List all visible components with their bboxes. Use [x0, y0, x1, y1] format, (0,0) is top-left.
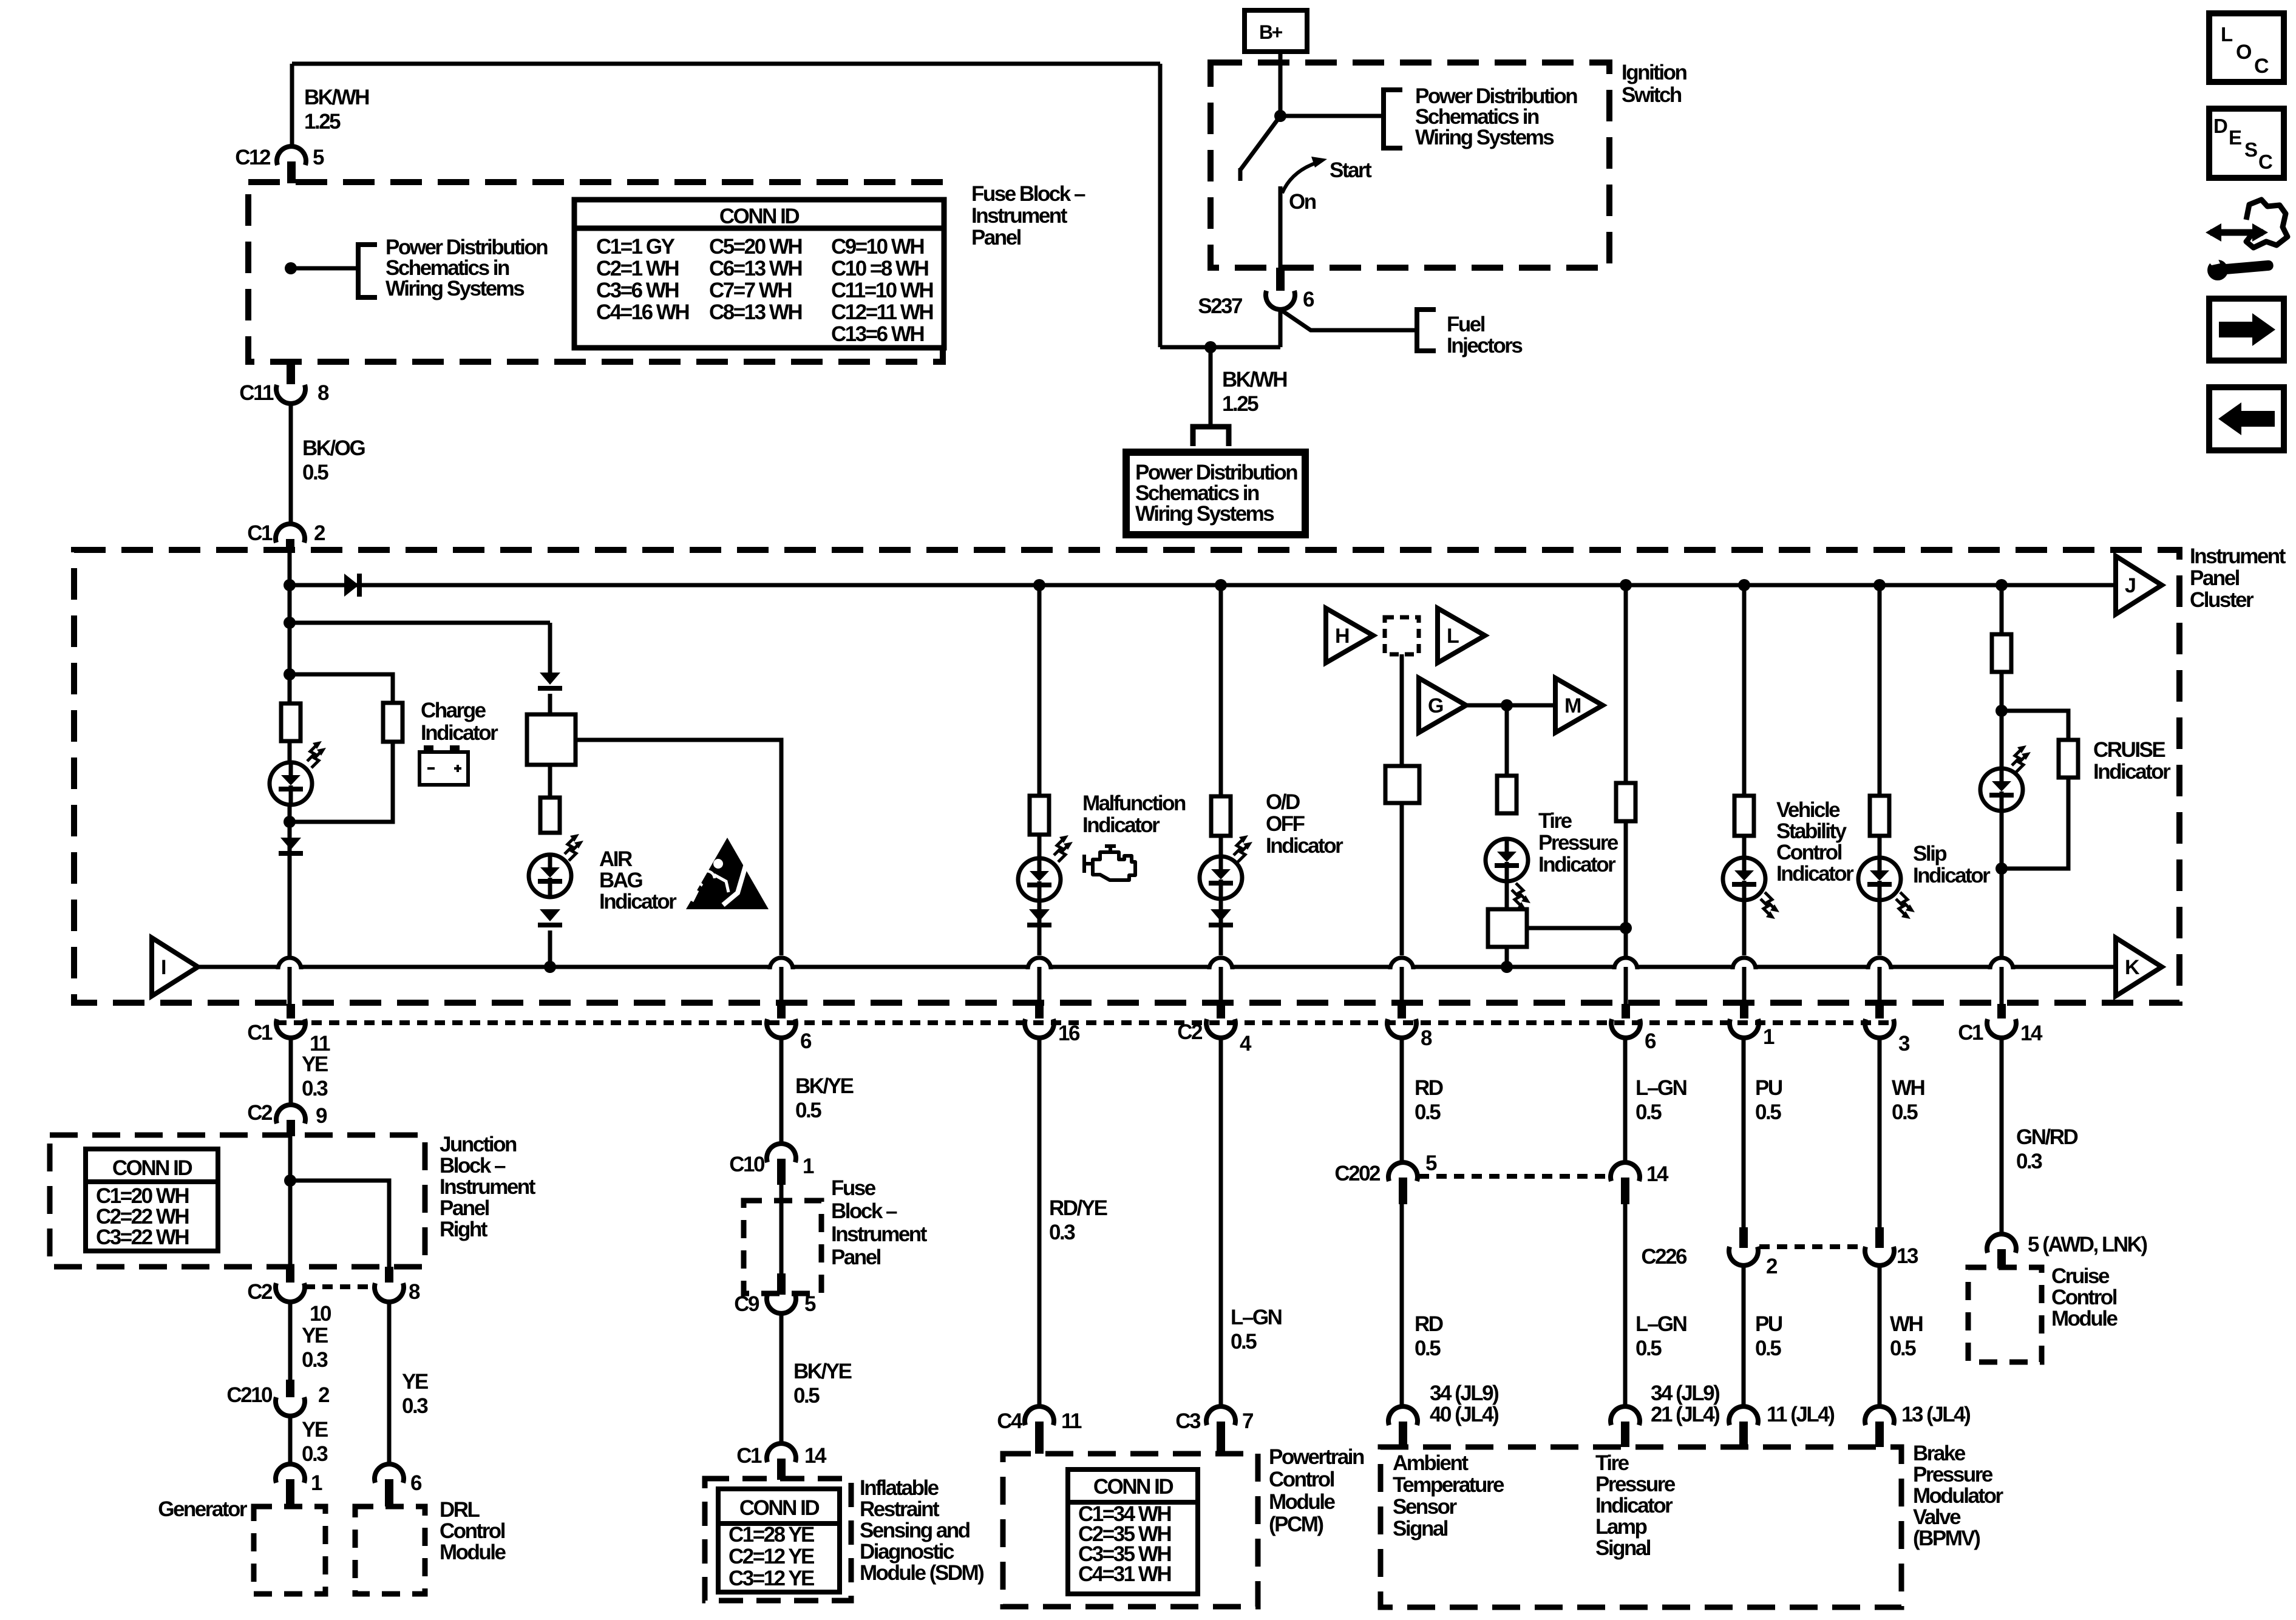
svg-text:11: 11 — [1061, 1409, 1082, 1433]
svg-text:OFF: OFF — [1266, 812, 1305, 836]
svg-text:(PCM): (PCM) — [1269, 1513, 1323, 1536]
svg-text:0.5: 0.5 — [793, 1384, 820, 1408]
svg-text:Indicator: Indicator — [2093, 760, 2171, 784]
svg-text:6: 6 — [1303, 288, 1314, 311]
svg-text:Stability: Stability — [1776, 819, 1847, 843]
svg-text:Fuse: Fuse — [831, 1176, 876, 1200]
svg-text:Sensing and: Sensing and — [860, 1519, 970, 1542]
svg-text:On: On — [1289, 190, 1316, 214]
svg-text:RD: RD — [1415, 1076, 1443, 1100]
svg-text:Indicator: Indicator — [1913, 864, 1991, 887]
svg-text:L–GN: L–GN — [1231, 1306, 1282, 1329]
svg-text:0.5: 0.5 — [795, 1099, 821, 1122]
svg-text:Instrument: Instrument — [971, 204, 1068, 228]
svg-text:5: 5 — [1425, 1151, 1437, 1175]
svg-text:Inflatable: Inflatable — [860, 1476, 939, 1500]
svg-text:GN/RD: GN/RD — [2016, 1125, 2078, 1149]
svg-text:0.3: 0.3 — [1049, 1221, 1075, 1244]
svg-text:K: K — [2125, 956, 2140, 979]
svg-text:Panel: Panel — [971, 226, 1021, 249]
svg-text:Powertrain: Powertrain — [1269, 1445, 1364, 1469]
svg-text:C7=7 WH: C7=7 WH — [709, 279, 791, 302]
svg-text:Sensor: Sensor — [1393, 1495, 1458, 1519]
svg-text:Signal: Signal — [1595, 1536, 1651, 1560]
svg-text:C4: C4 — [997, 1409, 1023, 1433]
svg-text:1: 1 — [1763, 1025, 1775, 1049]
svg-text:Pressure: Pressure — [1538, 831, 1618, 855]
svg-text:Instrument: Instrument — [440, 1175, 536, 1199]
svg-text:CONN ID: CONN ID — [739, 1496, 820, 1520]
svg-text:C4=16 WH: C4=16 WH — [596, 300, 688, 324]
svg-text:Indicator: Indicator — [1538, 853, 1616, 876]
svg-text:CONN ID: CONN ID — [1093, 1475, 1173, 1499]
svg-text:Ignition: Ignition — [1622, 61, 1686, 84]
svg-text:5: 5 — [804, 1292, 816, 1316]
svg-text:C1: C1 — [736, 1444, 762, 1468]
svg-text:PU: PU — [1755, 1076, 1782, 1100]
svg-text:Cluster: Cluster — [2190, 588, 2254, 612]
svg-text:0.3: 0.3 — [402, 1394, 428, 1418]
svg-text:Charge: Charge — [421, 699, 486, 722]
svg-text:Indicator: Indicator — [421, 721, 498, 745]
svg-text:Control: Control — [1269, 1468, 1334, 1491]
svg-text:Block –: Block – — [831, 1199, 897, 1223]
svg-text:Instrument: Instrument — [2190, 544, 2286, 568]
svg-text:Ambient: Ambient — [1393, 1451, 1469, 1475]
svg-text:C10: C10 — [729, 1153, 765, 1176]
svg-text:0.5: 0.5 — [1415, 1100, 1441, 1124]
svg-text:Control: Control — [440, 1519, 505, 1543]
svg-text:0.3: 0.3 — [302, 1348, 328, 1372]
svg-text:O/D: O/D — [1266, 790, 1300, 814]
svg-text:CONN ID: CONN ID — [719, 205, 800, 228]
svg-text:BK/YE: BK/YE — [793, 1360, 852, 1383]
svg-text:C9=10 WH: C9=10 WH — [831, 235, 923, 259]
svg-text:Tire: Tire — [1595, 1451, 1629, 1475]
svg-text:Pressure: Pressure — [1595, 1473, 1676, 1496]
svg-text:C6=13 WH: C6=13 WH — [709, 257, 801, 280]
svg-text:C2=1 WH: C2=1 WH — [596, 257, 678, 280]
svg-text:8: 8 — [1421, 1026, 1432, 1050]
svg-text:1.25: 1.25 — [304, 110, 341, 134]
svg-text:YE: YE — [302, 1324, 328, 1347]
svg-text:Module: Module — [2051, 1307, 2118, 1330]
svg-text:Junction: Junction — [440, 1133, 517, 1156]
svg-text:16: 16 — [1058, 1022, 1080, 1045]
svg-text:C12: C12 — [235, 146, 271, 169]
svg-text:0.5: 0.5 — [1892, 1100, 1918, 1124]
svg-text:Indicator: Indicator — [599, 890, 677, 913]
svg-text:5 (AWD, LNK): 5 (AWD, LNK) — [2028, 1233, 2147, 1256]
svg-text:Panel: Panel — [831, 1246, 881, 1269]
svg-text:13 (JL4): 13 (JL4) — [1901, 1403, 1970, 1426]
svg-text:2: 2 — [1766, 1255, 1778, 1278]
svg-text:2: 2 — [314, 521, 325, 545]
svg-text:M: M — [1564, 694, 1581, 717]
svg-text:0.5: 0.5 — [1890, 1337, 1916, 1360]
svg-text:C2: C2 — [247, 1101, 273, 1125]
svg-text:13: 13 — [1897, 1244, 1918, 1268]
svg-text:BK/WH: BK/WH — [304, 86, 369, 109]
svg-text:Wiring Systems: Wiring Systems — [385, 277, 525, 300]
svg-text:9: 9 — [316, 1104, 327, 1128]
svg-text:11 (JL4): 11 (JL4) — [1767, 1403, 1834, 1426]
svg-text:L–GN: L–GN — [1635, 1312, 1686, 1336]
svg-text:C: C — [2254, 55, 2269, 78]
svg-text:0.5: 0.5 — [1415, 1337, 1441, 1360]
svg-text:C1: C1 — [1958, 1021, 1983, 1045]
svg-text:C9: C9 — [734, 1292, 759, 1316]
svg-text:C8=13 WH: C8=13 WH — [709, 300, 801, 324]
svg-text:Cruise: Cruise — [2051, 1264, 2110, 1288]
svg-text:Signal: Signal — [1393, 1517, 1448, 1540]
svg-text:1.25: 1.25 — [1222, 392, 1258, 416]
svg-text:WH: WH — [1892, 1076, 1924, 1100]
svg-text:C1: C1 — [247, 521, 273, 545]
svg-text:AIR: AIR — [599, 847, 633, 871]
svg-text:Indicator: Indicator — [1595, 1494, 1673, 1517]
svg-text:Wiring Systems: Wiring Systems — [1135, 502, 1274, 526]
svg-text:E: E — [2229, 126, 2241, 149]
svg-text:Control: Control — [1776, 841, 1842, 864]
svg-text:YE: YE — [402, 1370, 428, 1394]
svg-text:Fuel: Fuel — [1447, 313, 1485, 336]
svg-text:14: 14 — [2020, 1022, 2043, 1045]
svg-text:0.5: 0.5 — [1755, 1337, 1781, 1360]
svg-text:6: 6 — [800, 1029, 812, 1053]
svg-text:10: 10 — [310, 1302, 331, 1326]
svg-text:CONN ID: CONN ID — [112, 1156, 192, 1180]
svg-text:5: 5 — [313, 146, 324, 169]
svg-text:8: 8 — [409, 1280, 420, 1304]
svg-text:(BPMV): (BPMV) — [1913, 1527, 1980, 1550]
svg-text:Malfunction: Malfunction — [1082, 791, 1186, 815]
svg-text:Indicator: Indicator — [1776, 862, 1854, 886]
svg-text:Restraint: Restraint — [860, 1497, 940, 1521]
svg-text:C202: C202 — [1334, 1162, 1381, 1185]
svg-text:Tire: Tire — [1538, 809, 1572, 833]
svg-text:0.5: 0.5 — [1231, 1330, 1257, 1354]
svg-text:O: O — [2236, 41, 2252, 64]
svg-text:34 (JL9): 34 (JL9) — [1430, 1381, 1498, 1405]
svg-text:6: 6 — [1645, 1029, 1656, 1053]
svg-text:C1: C1 — [247, 1021, 273, 1045]
svg-text:Switch: Switch — [1622, 83, 1682, 107]
svg-text:S: S — [2244, 138, 2257, 161]
svg-text:3: 3 — [1898, 1032, 1910, 1056]
svg-text:0.3: 0.3 — [2016, 1150, 2042, 1173]
svg-text:C11=10 WH: C11=10 WH — [831, 279, 932, 302]
svg-text:0.5: 0.5 — [1635, 1100, 1662, 1124]
svg-text:Injectors: Injectors — [1447, 334, 1523, 358]
svg-text:Module: Module — [440, 1540, 506, 1564]
svg-text:CRUISE: CRUISE — [2093, 738, 2165, 762]
svg-text:Lamp: Lamp — [1595, 1515, 1646, 1539]
svg-text:Module: Module — [1269, 1490, 1336, 1514]
svg-text:8: 8 — [318, 381, 329, 405]
svg-text:Control: Control — [2051, 1286, 2117, 1309]
svg-text:C3=12 YE: C3=12 YE — [729, 1567, 814, 1590]
svg-text:DRL: DRL — [440, 1498, 480, 1522]
svg-text:C2: C2 — [1177, 1020, 1203, 1044]
svg-text:C3: C3 — [1175, 1409, 1201, 1433]
svg-text:S237: S237 — [1198, 294, 1242, 318]
svg-text:Temperature: Temperature — [1393, 1473, 1504, 1497]
svg-text:PU: PU — [1755, 1312, 1782, 1336]
svg-text:YE: YE — [302, 1052, 328, 1076]
svg-text:BK/WH: BK/WH — [1222, 368, 1286, 391]
svg-text:14: 14 — [804, 1444, 827, 1468]
svg-text:Diagnostic: Diagnostic — [860, 1540, 954, 1564]
svg-text:H: H — [1335, 625, 1349, 648]
svg-text:C2=12 YE: C2=12 YE — [729, 1545, 814, 1568]
svg-text:C3=6 WH: C3=6 WH — [596, 279, 678, 302]
svg-text:I: I — [161, 956, 166, 979]
svg-text:D: D — [2213, 115, 2227, 137]
svg-text:0.5: 0.5 — [1635, 1337, 1662, 1360]
svg-text:21 (JL4): 21 (JL4) — [1651, 1403, 1719, 1426]
svg-text:C4=31 WH: C4=31 WH — [1078, 1562, 1170, 1586]
svg-text:B+: B+ — [1259, 21, 1283, 43]
svg-text:C10 =8 WH: C10 =8 WH — [831, 257, 928, 280]
svg-text:7: 7 — [1242, 1409, 1253, 1433]
svg-text:L: L — [1447, 625, 1459, 648]
svg-text:C1=28 YE: C1=28 YE — [729, 1523, 814, 1547]
svg-text:Generator: Generator — [158, 1497, 248, 1521]
svg-text:Module (SDM): Module (SDM) — [860, 1561, 983, 1585]
svg-text:Right: Right — [440, 1218, 488, 1241]
svg-text:40 (JL4): 40 (JL4) — [1430, 1403, 1498, 1426]
svg-text:Valve: Valve — [1913, 1505, 1961, 1529]
svg-text:C1=1 GY: C1=1 GY — [596, 235, 675, 259]
svg-text:C5=20 WH: C5=20 WH — [709, 235, 801, 259]
svg-text:C226: C226 — [1641, 1245, 1687, 1269]
svg-text:RD: RD — [1415, 1312, 1443, 1336]
svg-text:BK/YE: BK/YE — [795, 1074, 854, 1098]
svg-text:Modulator: Modulator — [1913, 1484, 2004, 1508]
svg-text:0.5: 0.5 — [1755, 1100, 1781, 1124]
svg-text:C210: C210 — [226, 1383, 273, 1407]
svg-text:Wiring Systems: Wiring Systems — [1415, 126, 1554, 149]
svg-text:C3=22 WH: C3=22 WH — [96, 1225, 188, 1249]
svg-text:0.3: 0.3 — [302, 1077, 328, 1100]
svg-text:34 (JL9): 34 (JL9) — [1651, 1381, 1719, 1405]
svg-text:1: 1 — [311, 1471, 322, 1495]
svg-text:Brake: Brake — [1913, 1442, 1966, 1465]
svg-text:RD/YE: RD/YE — [1049, 1196, 1107, 1220]
svg-text:Instrument: Instrument — [831, 1222, 928, 1246]
svg-text:Start: Start — [1330, 158, 1372, 182]
svg-text:Block –: Block – — [440, 1154, 506, 1178]
svg-text:0.5: 0.5 — [302, 461, 328, 484]
svg-text:WH: WH — [1890, 1312, 1923, 1336]
svg-text:0.3: 0.3 — [302, 1442, 328, 1466]
svg-text:1: 1 — [803, 1154, 814, 1178]
svg-text:Indicator: Indicator — [1266, 834, 1343, 858]
svg-text:Indicator: Indicator — [1082, 813, 1160, 837]
svg-text:Slip: Slip — [1913, 842, 1946, 866]
svg-text:2: 2 — [318, 1383, 330, 1407]
svg-text:C13=6 WH: C13=6 WH — [831, 322, 923, 346]
svg-text:Panel: Panel — [440, 1196, 489, 1220]
svg-text:Panel: Panel — [2190, 566, 2240, 590]
svg-text:C2: C2 — [247, 1280, 273, 1304]
svg-text:L: L — [2221, 23, 2233, 46]
svg-text:J: J — [2125, 574, 2135, 597]
svg-text:Fuse Block –: Fuse Block – — [971, 182, 1085, 206]
svg-text:C: C — [2258, 151, 2272, 173]
svg-text:Vehicle: Vehicle — [1776, 798, 1840, 822]
svg-text:G: G — [1428, 694, 1443, 717]
svg-text:6: 6 — [410, 1471, 422, 1495]
svg-text:C12=11 WH: C12=11 WH — [831, 300, 932, 324]
svg-text:BAG: BAG — [599, 869, 643, 892]
svg-text:BK/OG: BK/OG — [302, 436, 365, 460]
svg-text:YE: YE — [302, 1418, 328, 1442]
svg-text:Pressure: Pressure — [1913, 1463, 1993, 1486]
svg-text:C11: C11 — [239, 381, 274, 405]
svg-text:14: 14 — [1646, 1162, 1669, 1186]
svg-text:L–GN: L–GN — [1635, 1076, 1686, 1100]
